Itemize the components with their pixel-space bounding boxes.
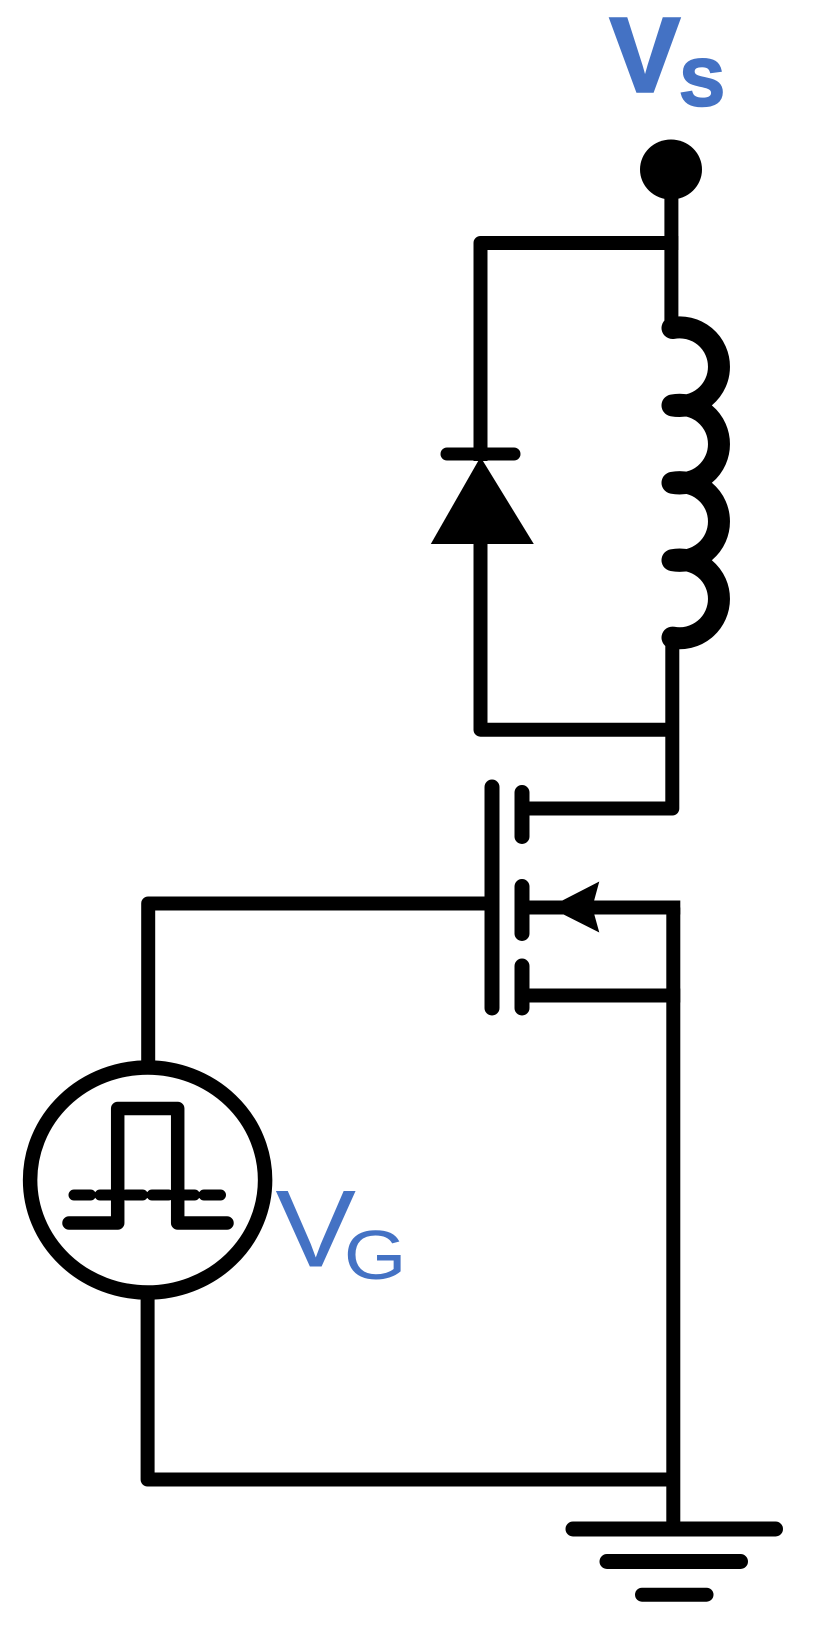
transistor Q1 channel segment middle (body) — [515, 887, 530, 934]
transistor Q1 channel segment top (drain) — [515, 793, 530, 837]
wire node stub down to top rail — [664, 185, 678, 250]
svg-text:S: S — [680, 46, 724, 120]
dashed baseline inside VG — [74, 1190, 221, 1201]
svg-text:G: G — [344, 1217, 407, 1295]
source VG circle — [30, 1068, 265, 1293]
wire source lead horizontal — [529, 989, 680, 1003]
pulse waveform inside VG — [69, 1109, 227, 1224]
ground bar 2 — [607, 1554, 741, 1569]
wire diode anode down and loop bottom — [481, 536, 673, 730]
wire right rail upper (node to inductor) — [664, 236, 678, 328]
wire inductor bottom to drain corner and drain lead — [522, 637, 672, 809]
wire top rail and left drop to diode — [481, 243, 672, 461]
inductor L1 — [673, 327, 719, 638]
label VG — [275, 1167, 406, 1295]
diode D1 triangle — [431, 457, 534, 544]
transistor Q1 body-diode arrow — [549, 882, 599, 933]
label Vs — [610, 0, 724, 120]
wire body lead horizontal — [529, 901, 680, 915]
diode D1 cathode bar — [447, 448, 514, 461]
wire gate lead and left drop to VG — [148, 904, 492, 1066]
wire right rail lower (body/source to ground) — [666, 908, 680, 1528]
ground bar 1 — [573, 1522, 776, 1537]
ground bar 3 — [642, 1588, 707, 1602]
transistor Q1 channel segment bottom (source) — [515, 966, 530, 1008]
transistor Q1 gate line — [485, 787, 500, 1008]
svg-text:V: V — [610, 0, 680, 115]
node Vs terminal dot — [640, 140, 702, 200]
wire VG bottom drop and bottom rail — [148, 1290, 674, 1480]
